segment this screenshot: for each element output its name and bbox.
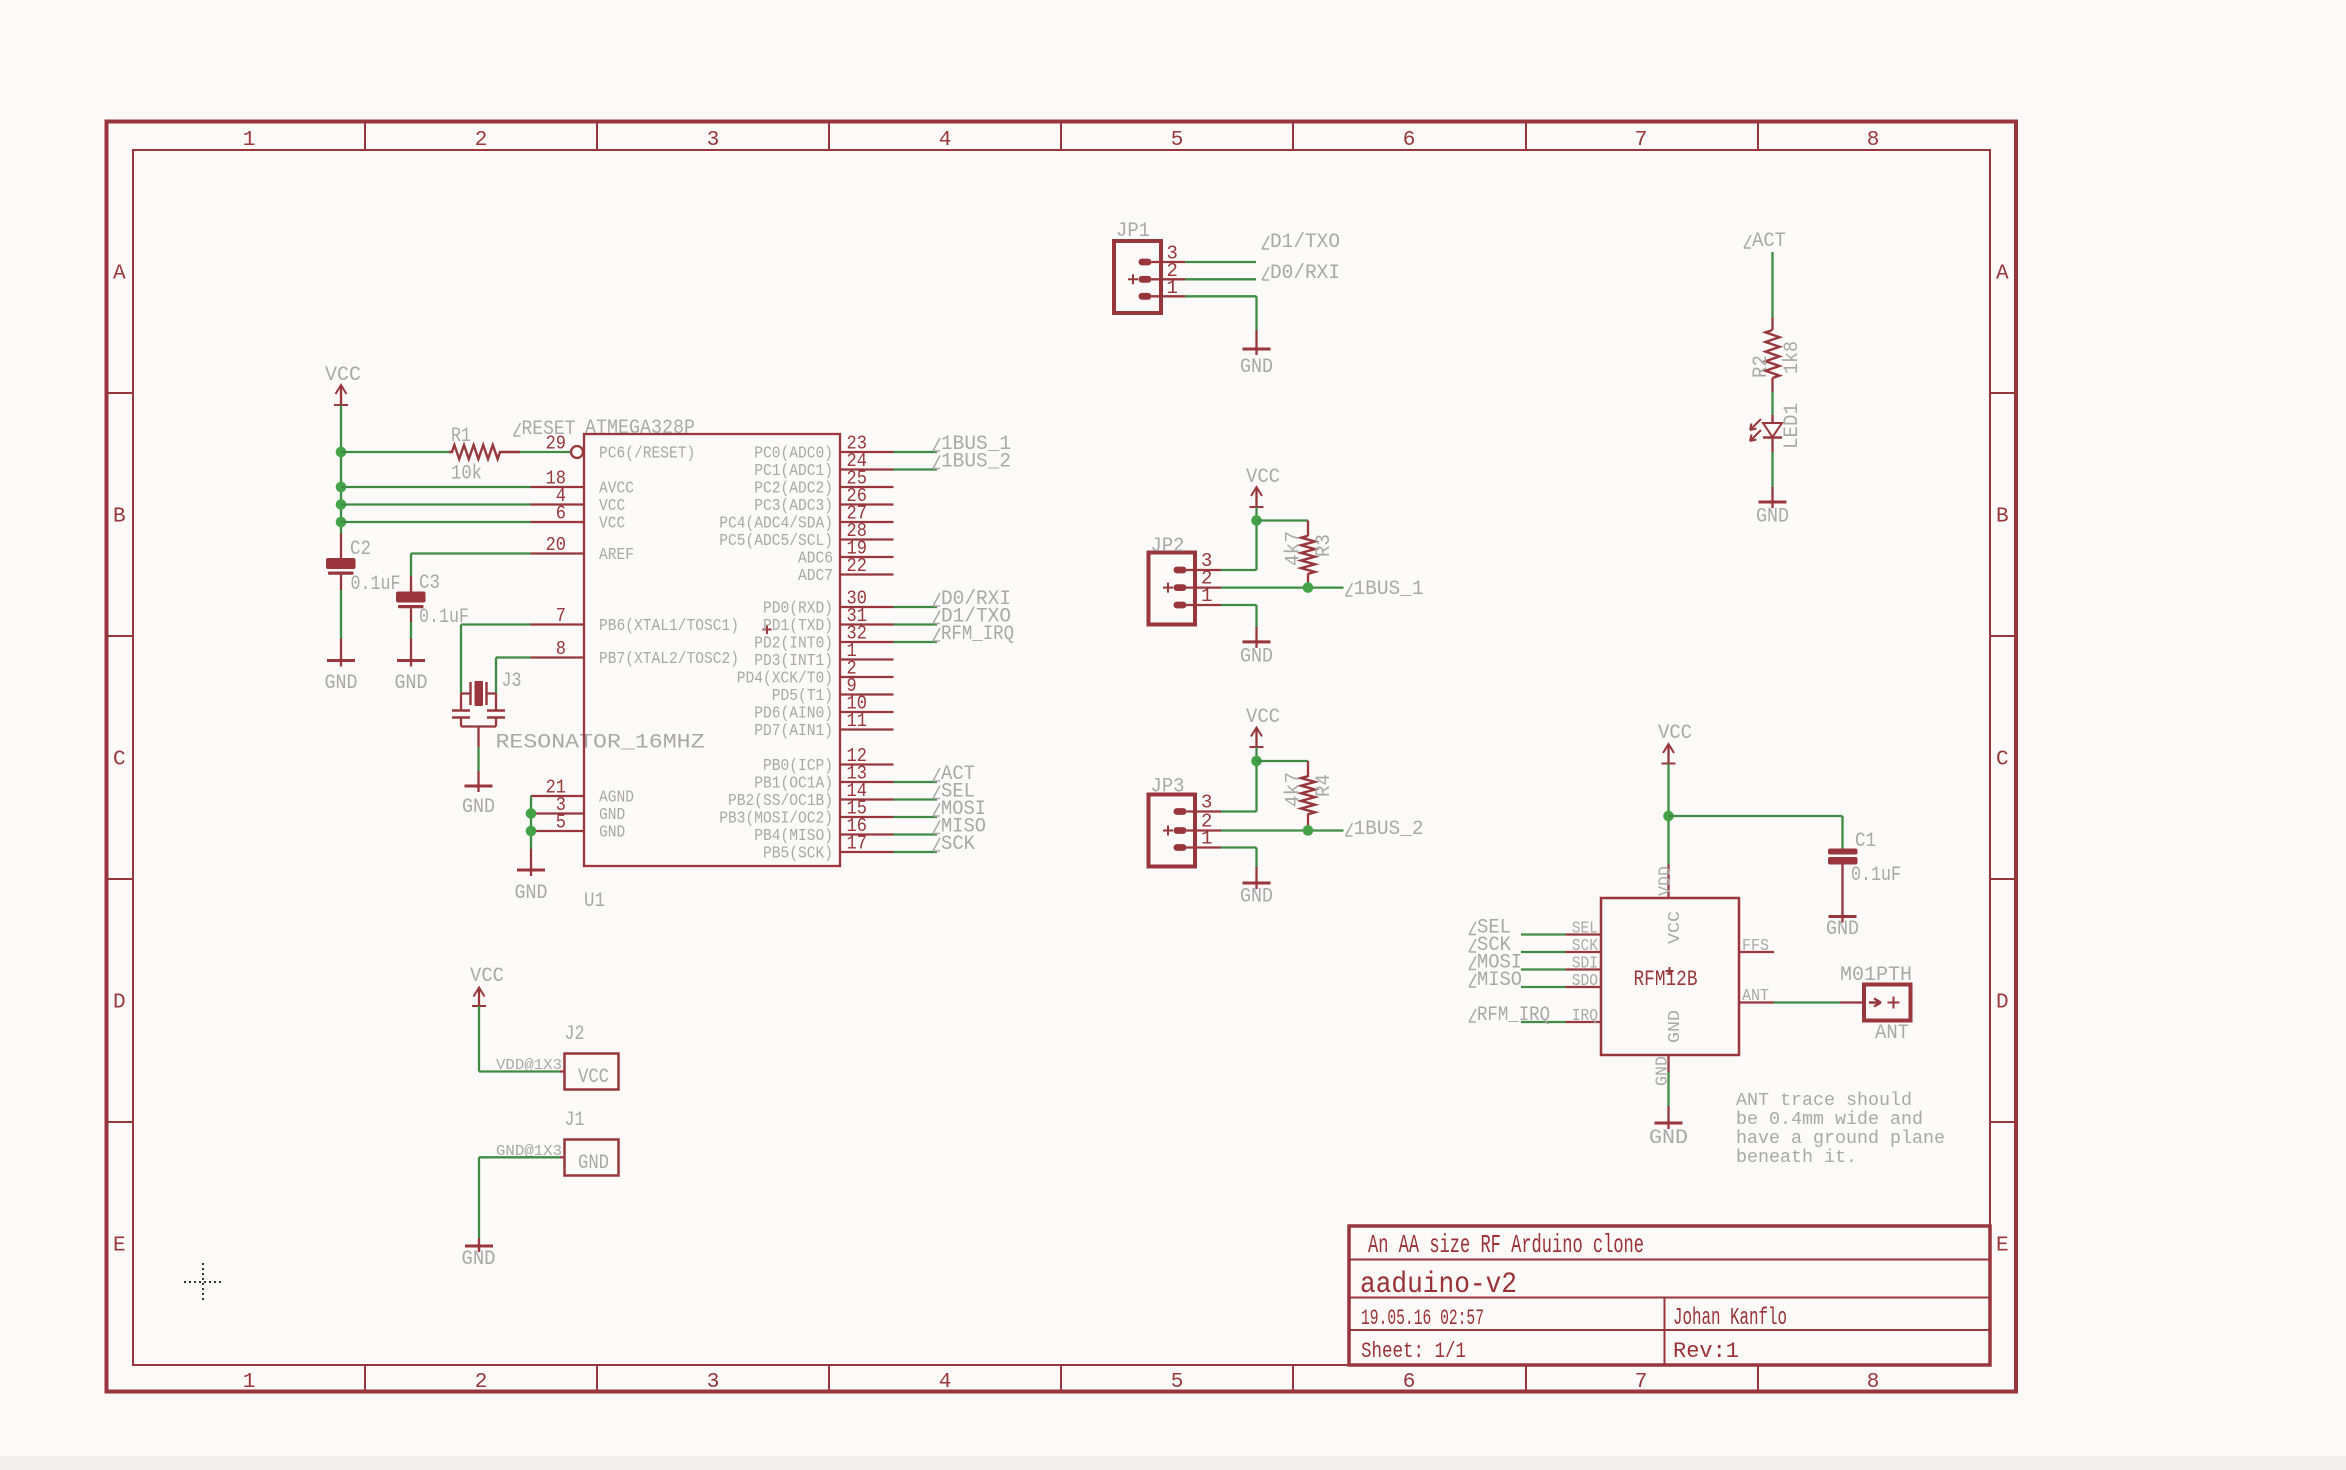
svg-text:VDD@1X3: VDD@1X3	[496, 1057, 562, 1074]
wire JP3.3 to VCC	[1187, 810, 1222, 812]
net label SEL (U1)	[933, 781, 975, 804]
origin cross U1	[763, 629, 772, 631]
svg-text:aaduino-v2: aaduino-v2	[1360, 1268, 1517, 1302]
svg-text:SCK: SCK	[941, 833, 975, 856]
frame column numbers bottom	[243, 1371, 1880, 1394]
wire AGND/GND bus	[530, 796, 532, 849]
svg-text:17: 17	[847, 833, 867, 855]
svg-text:GND: GND	[395, 672, 428, 695]
pin 3 (GND) U1 left	[531, 794, 626, 825]
net label 1BUS_2 (U1)	[933, 451, 1011, 474]
svg-text:PC5(ADC5/SCL): PC5(ADC5/SCL)	[719, 532, 833, 551]
ground GND (C3)	[395, 659, 428, 696]
pin 14 (PB2(SS/OC1B)) U1 right	[728, 780, 894, 811]
pin 23 (PC0(ADC0)) U1 right	[754, 433, 893, 464]
supply VCC (JP2)	[1246, 466, 1280, 507]
svg-text:AVCC: AVCC	[599, 480, 634, 499]
pin 11 (PD7(AIN1)) U1 right	[754, 710, 893, 741]
junction VCC/C1	[1663, 811, 1674, 822]
svg-text:Rev:1: Rev:1	[1673, 1339, 1739, 1364]
wire GND bus to ground	[530, 849, 532, 870]
wire XTAL1	[461, 623, 531, 625]
svg-text:0.1uF: 0.1uF	[1851, 864, 1901, 887]
svg-text:ATMEGA328P: ATMEGA328P	[585, 417, 695, 440]
svg-text:22: 22	[847, 555, 867, 577]
wire R1 to RESET pin	[520, 451, 571, 453]
frame row letters left	[113, 263, 126, 1258]
svg-text:4k7: 4k7	[1283, 772, 1306, 807]
wire XTAL2	[496, 656, 531, 658]
svg-text:GND: GND	[1240, 646, 1273, 669]
svg-text:PB4(MISO): PB4(MISO)	[754, 827, 833, 846]
svg-text:E: E	[113, 1235, 126, 1258]
svg-text:PD5(T1): PD5(T1)	[772, 687, 833, 706]
svg-text:J2: J2	[565, 1023, 585, 1046]
svg-text:VCC: VCC	[578, 1066, 609, 1089]
pin 29 (PC6(/RESET)) U1 left	[546, 433, 696, 464]
svg-text:10k: 10k	[451, 463, 482, 486]
svg-text:R4: R4	[1313, 774, 1336, 797]
wire JP1.1 to GND	[1152, 295, 1186, 297]
IC U1 ATMEGA328P body	[584, 434, 840, 866]
title block outline	[1349, 1226, 1990, 1365]
frame row letters right	[1996, 263, 2009, 1258]
junction VCC/RESET	[336, 447, 347, 458]
svg-text:C: C	[113, 749, 126, 772]
junction R3/1BUS_1	[1303, 582, 1314, 593]
svg-text:PD3(INT1): PD3(INT1)	[754, 652, 833, 671]
svg-text:3: 3	[707, 129, 720, 152]
svg-text:19.05.16 02:57: 19.05.16 02:57	[1361, 1306, 1484, 1331]
svg-text:GND: GND	[515, 882, 548, 905]
wire SEL (RFM12B)	[1521, 933, 1566, 935]
svg-text:VCC: VCC	[1666, 911, 1685, 944]
net label D0/RXI	[1262, 262, 1340, 285]
pin 32 (PD2(INT0)) U1 right	[754, 623, 893, 654]
svg-text:U1: U1	[584, 890, 605, 913]
net label RFM_IRQ (RFM12B)	[1469, 1004, 1550, 1027]
svg-text:GND: GND	[325, 672, 358, 695]
frame column numbers top	[243, 129, 1880, 152]
resistor R2	[1766, 330, 1780, 378]
pin 30 (PD0(RXD)) U1 right	[763, 588, 894, 619]
wire VCC to JP2.3	[1255, 507, 1257, 570]
svg-text:11: 11	[847, 710, 867, 732]
svg-text:PC2(ADC2): PC2(ADC2)	[754, 480, 833, 499]
svg-text:RFM_IRQ: RFM_IRQ	[941, 623, 1014, 646]
svg-text:PD6(AIN0): PD6(AIN0)	[754, 705, 833, 724]
svg-text:VCC: VCC	[1246, 706, 1280, 729]
junction VCC/VCC pin6	[336, 517, 347, 528]
net label SEL (RFM12B)	[1469, 917, 1511, 940]
wire C2 to GND	[340, 590, 342, 639]
svg-text:R3: R3	[1313, 534, 1336, 557]
svg-text:PB2(SS/OC1B): PB2(SS/OC1B)	[728, 792, 833, 811]
net label ACT (LED)	[1744, 230, 1786, 253]
svg-text:4k7: 4k7	[1283, 531, 1306, 566]
svg-text:PC6(/RESET): PC6(/RESET)	[599, 445, 695, 464]
svg-text:1BUS_2: 1BUS_2	[1354, 818, 1424, 841]
svg-text:8: 8	[1867, 1371, 1880, 1394]
svg-text:ANT: ANT	[1742, 987, 1769, 1006]
wire U1 pin 30 to net D0/RXI	[894, 606, 938, 608]
svg-text:GND: GND	[599, 806, 625, 825]
svg-text:D0/RXI: D0/RXI	[1270, 262, 1340, 285]
svg-text:GND: GND	[1240, 356, 1273, 379]
diode LED1	[1750, 415, 1782, 452]
svg-text:D1/TXO: D1/TXO	[1270, 231, 1340, 254]
svg-text:PD1(TXD): PD1(TXD)	[763, 617, 833, 636]
net label 1BUS_1 (U1)	[933, 433, 1011, 456]
svg-text:VCC: VCC	[1246, 466, 1280, 489]
svg-text:6: 6	[1403, 1371, 1416, 1394]
pin ANT RFM12B right	[1739, 987, 1774, 1006]
svg-text:GND: GND	[1756, 506, 1789, 529]
pin SDI RFM12B left	[1566, 955, 1602, 974]
svg-text:VCC: VCC	[599, 497, 625, 516]
svg-text:1BUS_2: 1BUS_2	[941, 451, 1011, 474]
svg-text:be 0.4mm wide and: be 0.4mm wide and	[1736, 1110, 1923, 1130]
svg-text:7: 7	[1635, 1371, 1648, 1394]
frame outer border	[107, 122, 2017, 1392]
net label MISO (RFM12B)	[1469, 969, 1522, 992]
svg-text:VCC: VCC	[1658, 722, 1692, 745]
net label D1/TXO	[1262, 231, 1340, 254]
frame inner border	[133, 150, 1990, 1365]
svg-text:R1: R1	[451, 425, 471, 448]
svg-text:FFS: FFS	[1742, 937, 1769, 956]
ground GND (C1)	[1826, 915, 1859, 942]
svg-text:5: 5	[1171, 129, 1184, 152]
svg-text:8: 8	[1867, 129, 1880, 152]
wire VCC to pin4	[341, 503, 531, 505]
supply VCC (left rail)	[325, 364, 361, 405]
svg-text:1: 1	[243, 129, 256, 152]
origin cross RFM12B	[1666, 970, 1674, 972]
ground GND (resonator)	[462, 784, 495, 819]
svg-text:C2: C2	[350, 538, 371, 561]
svg-text:JP1: JP1	[1116, 220, 1150, 243]
pin 31 (PD1(TXD)) U1 right	[763, 605, 894, 636]
pin VDD RFM12B top	[1657, 865, 1676, 899]
pin 24 (PC1(ADC1)) U1 right	[754, 450, 893, 481]
svg-text:beneath it.: beneath it.	[1736, 1148, 1857, 1168]
wire MOSI (RFM12B)	[1521, 968, 1566, 970]
connector JP1 body	[1114, 241, 1161, 313]
wire VCC to R3	[1257, 519, 1309, 521]
junction GND pin5	[526, 826, 537, 837]
ground GND (C2)	[325, 659, 358, 696]
svg-text:SCK: SCK	[1572, 937, 1599, 956]
ground GND (J1)	[462, 1244, 496, 1271]
svg-text:1k8: 1k8	[1781, 341, 1804, 374]
wire JP2.3 to VCC	[1187, 569, 1222, 571]
pin 1 (PD3(INT1)) U1 right	[754, 640, 893, 671]
wire JP2.2 to 1BUS_1	[1187, 586, 1222, 588]
ground GND (LED1)	[1756, 500, 1789, 529]
pad JP2 pin 2	[1163, 583, 1187, 593]
svg-text:ADC6: ADC6	[798, 550, 833, 569]
wire J1 to GND	[560, 1156, 565, 1158]
wire VCC to C1	[1669, 815, 1843, 817]
pad JP3 pin 3	[1174, 808, 1187, 815]
pin 4 (VCC) U1 left	[531, 485, 626, 516]
wire JP1.3 to D1/TXO	[1152, 261, 1186, 263]
svg-text:GND: GND	[462, 796, 495, 819]
svg-text:Johan Kanflo: Johan Kanflo	[1673, 1305, 1787, 1332]
svg-text:PC1(ADC1): PC1(ADC1)	[754, 462, 833, 481]
pin 5 (GND) U1 left	[531, 812, 626, 843]
svg-text:PB6(XTAL1/TOSC1): PB6(XTAL1/TOSC1)	[599, 617, 739, 636]
module RFM12B body	[1601, 898, 1739, 1055]
title block row dividers	[1349, 1259, 1990, 1261]
antenna pad M01PTH body	[1864, 985, 1911, 1021]
pin 25 (PC2(ADC2)) U1 right	[754, 468, 893, 499]
svg-text:20: 20	[546, 534, 566, 556]
wire JP1.2 to D0/RXI	[1152, 278, 1186, 280]
svg-text:GND: GND	[1240, 886, 1273, 909]
svg-text:PD4(XCK/T0): PD4(XCK/T0)	[737, 670, 833, 689]
wire VCC to JP3.3	[1255, 747, 1257, 812]
net label D1/TXO (U1)	[933, 606, 1011, 629]
resonator J3	[452, 681, 505, 747]
net label MOSI (RFM12B)	[1469, 952, 1522, 975]
ground GND (JP2)	[1240, 640, 1273, 669]
pad JP3 pin 2	[1163, 826, 1187, 836]
net label RFM_IRQ (U1)	[933, 623, 1014, 646]
junction VCC/AVCC	[336, 482, 347, 493]
ground GND (JP3)	[1240, 881, 1273, 909]
inversion circle pin 29	[571, 446, 583, 458]
wire SCK (RFM12B)	[1521, 951, 1566, 953]
svg-text:GND: GND	[578, 1152, 609, 1175]
pin 16 (PB4(MISO)) U1 right	[754, 815, 893, 846]
svg-text:1: 1	[243, 1371, 256, 1394]
pin 9 (PD5(T1)) U1 right	[772, 675, 894, 706]
connector J2 body	[565, 1054, 619, 1090]
pin 7 (PB6(XTAL1/TOSC1)) U1 left	[531, 605, 740, 636]
ground GND (U1)	[515, 868, 548, 905]
wire VCC to pin6	[341, 521, 531, 523]
svg-text:PB3(MOSI/OC2): PB3(MOSI/OC2)	[719, 810, 833, 829]
svg-text:ANT: ANT	[1875, 1022, 1909, 1045]
svg-text:5: 5	[556, 812, 566, 834]
svg-text:3: 3	[707, 1371, 720, 1394]
pin SDO RFM12B left	[1566, 972, 1602, 991]
wire AREF net	[411, 552, 531, 554]
resistor R1	[449, 445, 520, 459]
wire U1 pin 17 to net SCK	[894, 851, 938, 853]
supply VCC (J2)	[470, 965, 504, 1006]
wire U1 pin 16 to net MISO	[894, 833, 938, 835]
pad JP3 pin 1	[1174, 844, 1187, 851]
pin 10 (PD6(AIN0)) U1 right	[754, 693, 893, 724]
pin 13 (PB1(OC1A)) U1 right	[754, 763, 893, 794]
connector JP2 body	[1149, 553, 1196, 625]
svg-text:PB1(OC1A): PB1(OC1A)	[754, 775, 833, 794]
wire VCC down to VDD pin	[1667, 764, 1669, 865]
svg-text:C3: C3	[419, 572, 440, 595]
svg-text:A: A	[113, 263, 126, 286]
svg-text:PD7(AIN1): PD7(AIN1)	[754, 722, 833, 741]
wire MISO (RFM12B)	[1521, 986, 1566, 988]
junction VCC/R3	[1251, 515, 1262, 526]
pin 17 (PB5(SCK)) U1 right	[763, 833, 894, 864]
resistor R4	[1301, 761, 1315, 831]
junction VCC/R4	[1251, 756, 1262, 767]
wire VCC to AVCC	[341, 486, 531, 488]
svg-text:J1: J1	[565, 1109, 585, 1132]
ground GND (JP1)	[1240, 347, 1273, 379]
resistor R3	[1301, 521, 1315, 588]
pin 21 (AGND) U1 left	[531, 777, 635, 808]
capacitor C2	[326, 534, 356, 591]
pin 27 (PC4(ADC4/SDA)) U1 right	[719, 503, 893, 534]
net label ACT (U1)	[933, 763, 975, 786]
svg-text:VCC: VCC	[470, 965, 504, 988]
svg-text:2: 2	[475, 129, 488, 152]
wire VCC to R4	[1257, 760, 1309, 762]
svg-text:VDD: VDD	[1657, 866, 1676, 896]
svg-text:PD2(INT0): PD2(INT0)	[754, 635, 833, 654]
supply VCC (JP3)	[1246, 706, 1280, 747]
ground GND (RFM12B)	[1649, 1121, 1688, 1150]
svg-text:GND: GND	[1826, 918, 1859, 941]
wire ANT net	[1774, 1001, 1840, 1003]
wire RFM_IRQ (RFM12B)	[1521, 1021, 1566, 1023]
svg-text:AREF: AREF	[599, 546, 634, 565]
wire VCC to J2	[478, 1006, 480, 1072]
svg-text:have a ground plane: have a ground plane	[1736, 1129, 1945, 1149]
svg-text:GND: GND	[1649, 1127, 1688, 1150]
pad JP1 pin 1	[1139, 293, 1152, 300]
origin cross marker	[184, 1263, 222, 1301]
pin 26 (PC3(ADC3)) U1 right	[754, 485, 893, 516]
svg-text:ACT: ACT	[1752, 230, 1786, 253]
net label RESET	[514, 418, 576, 441]
junction R4/1BUS_2	[1303, 825, 1314, 836]
wire JP3.1 to GND	[1187, 846, 1222, 848]
svg-text:J3: J3	[502, 670, 522, 693]
svg-text:D: D	[113, 992, 126, 1015]
connector J1 body	[565, 1140, 619, 1176]
svg-text:C: C	[1996, 749, 2009, 772]
frame column ticks	[365, 122, 1758, 1392]
wire U1 pin 14 to net SEL	[894, 798, 938, 800]
svg-text:SDI: SDI	[1572, 955, 1598, 974]
svg-text:VCC: VCC	[599, 515, 625, 534]
svg-text:JP2: JP2	[1151, 535, 1185, 558]
pin SEL RFM12B left	[1566, 920, 1602, 939]
svg-text:Sheet: 1/1: Sheet: 1/1	[1361, 1339, 1466, 1364]
svg-text:0.1uF: 0.1uF	[351, 573, 401, 596]
wire JP2.1 to GND	[1187, 604, 1222, 606]
pin 2 (PD4(XCK/T0)) U1 right	[737, 658, 894, 689]
junction VCC/VCC pin4	[336, 499, 347, 510]
svg-text:E: E	[1996, 1235, 2009, 1258]
svg-text:LED1: LED1	[1781, 403, 1804, 449]
junction GND pin3	[526, 808, 537, 819]
pad JP2 pin 3	[1174, 567, 1187, 574]
wire VCC to R1	[341, 451, 449, 453]
supply VCC (RFM12B)	[1658, 722, 1692, 764]
pad arrow M01PTH	[1869, 997, 1900, 1009]
svg-text:4: 4	[939, 129, 952, 152]
svg-text:A: A	[1996, 263, 2009, 286]
capacitor C3	[396, 576, 426, 622]
svg-text:B: B	[1996, 506, 2009, 529]
title block column divider	[1664, 1298, 1666, 1366]
net label 1BUS_1 (JP2)	[1346, 578, 1424, 601]
svg-text:PC3(ADC3): PC3(ADC3)	[754, 497, 833, 516]
svg-text:VCC: VCC	[325, 364, 361, 387]
svg-text:ANT trace should: ANT trace should	[1736, 1091, 1912, 1111]
svg-text:M01PTH: M01PTH	[1840, 964, 1912, 987]
svg-text:An AA size RF Arduino clone: An AA size RF Arduino clone	[1368, 1230, 1644, 1260]
pin 8 (PB7(XTAL2/TOSC2)) U1 left	[531, 638, 740, 669]
pin GND RFM12B bottom	[1654, 1055, 1673, 1086]
pad JP1 pin 2	[1128, 274, 1152, 284]
wire ACT to R2	[1771, 252, 1773, 318]
svg-text:GND: GND	[462, 1248, 496, 1271]
pin 15 (PB3(MOSI/OC2)) U1 right	[719, 798, 893, 829]
svg-text:4: 4	[939, 1371, 952, 1394]
wire R2 to LED1	[1771, 378, 1773, 392]
net label D0/RXI (U1)	[933, 588, 1011, 611]
svg-text:ADC7: ADC7	[798, 567, 833, 586]
pad JP1 pin 3	[1139, 259, 1152, 266]
net label MISO (U1)	[933, 816, 986, 839]
wire U1 pin 24 to net 1BUS_2	[894, 468, 938, 470]
wire LED1 to GND	[1771, 452, 1773, 487]
svg-text:PB7(XTAL2/TOSC2): PB7(XTAL2/TOSC2)	[599, 650, 739, 669]
svg-text:SEL: SEL	[1572, 920, 1598, 939]
svg-text:SDO: SDO	[1572, 972, 1598, 991]
svg-text:D: D	[1996, 992, 2009, 1015]
svg-text:GND: GND	[599, 824, 625, 843]
frame row ticks	[107, 393, 2017, 1122]
pin FFS RFM12B right	[1739, 937, 1774, 956]
wire C3 to GND	[410, 622, 412, 639]
svg-text:PC0(ADC0): PC0(ADC0)	[754, 445, 833, 464]
pin 28 (PC5(ADC5/SCL)) U1 right	[719, 520, 893, 551]
svg-text:GND: GND	[1666, 1010, 1685, 1043]
connector JP3 body	[1149, 795, 1196, 867]
svg-text:RFM_IRQ: RFM_IRQ	[1477, 1004, 1550, 1027]
pin 20 (AREF) U1 left	[531, 534, 635, 565]
svg-text:PD0(RXD): PD0(RXD)	[763, 600, 833, 619]
pin 18 (AVCC) U1 left	[531, 468, 635, 499]
svg-text:PB5(SCK): PB5(SCK)	[763, 845, 833, 864]
wire U1 pin 31 to net D1/TXO	[894, 623, 938, 625]
net label 1BUS_2 (JP3)	[1346, 818, 1424, 841]
svg-text:R2: R2	[1750, 355, 1773, 378]
svg-text:2: 2	[475, 1371, 488, 1394]
svg-text:B: B	[113, 506, 126, 529]
wire resonator to GND	[477, 747, 479, 771]
svg-text:6: 6	[556, 503, 566, 525]
svg-text:5: 5	[1171, 1371, 1184, 1394]
svg-text:29: 29	[546, 433, 566, 455]
svg-text:PB0(ICP): PB0(ICP)	[763, 757, 833, 776]
wire U1 pin 13 to net ACT	[894, 781, 938, 783]
pin 19 (ADC6) U1 right	[798, 538, 894, 569]
svg-text:IRQ: IRQ	[1572, 1007, 1598, 1026]
pin IRQ RFM12B left	[1566, 1007, 1602, 1026]
wire JP3.2 to 1BUS_2	[1187, 829, 1222, 831]
net label SCK (RFM12B)	[1469, 934, 1511, 957]
svg-text:8: 8	[556, 638, 566, 660]
